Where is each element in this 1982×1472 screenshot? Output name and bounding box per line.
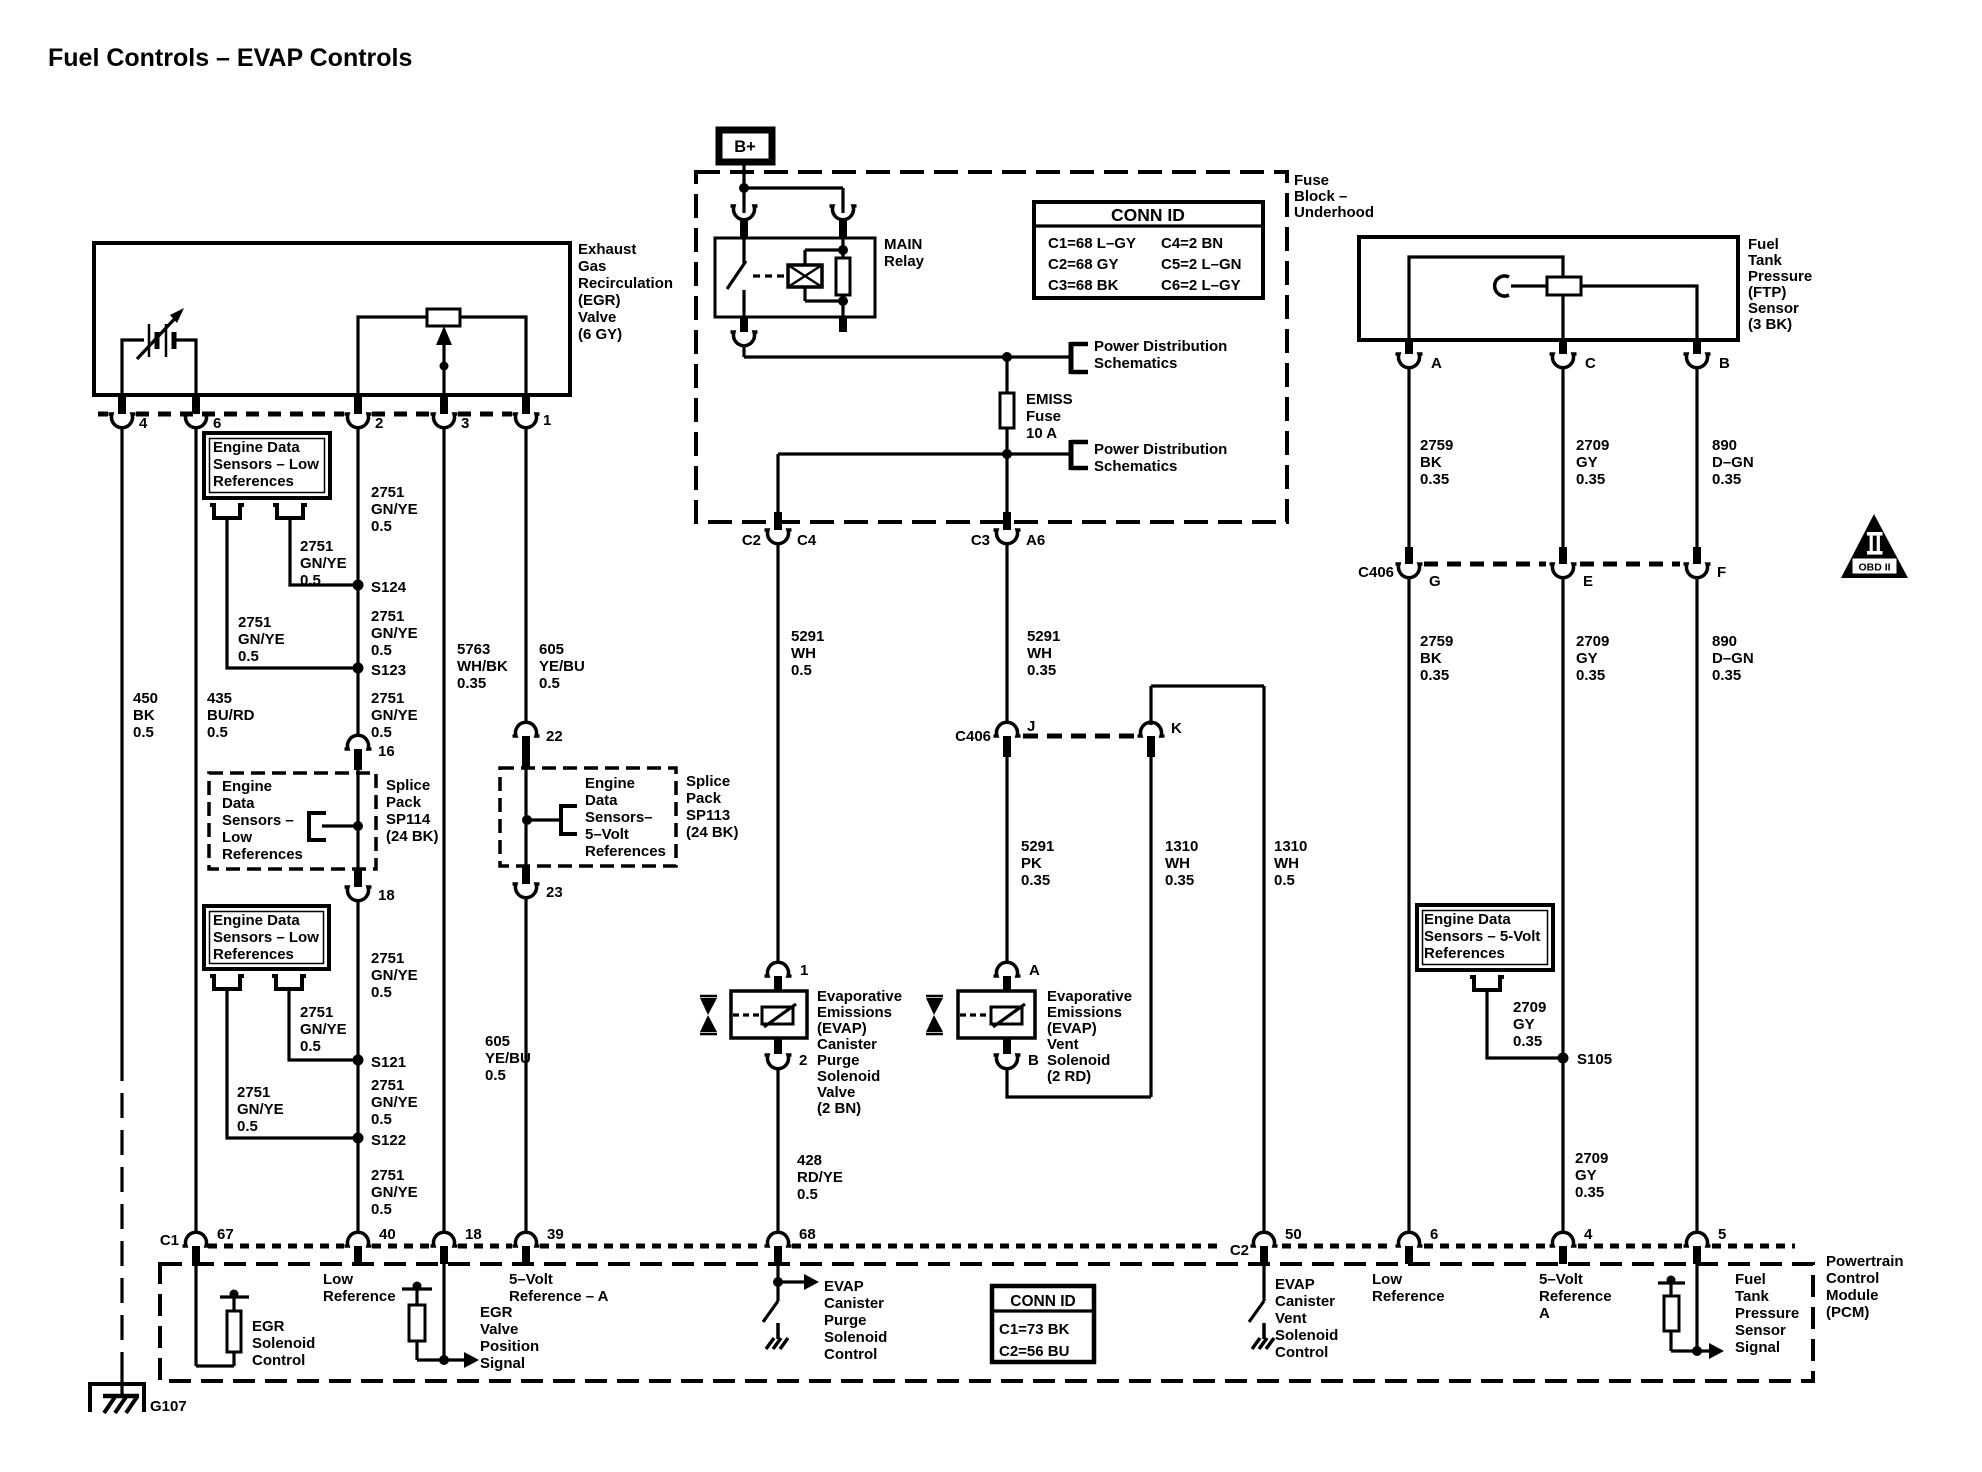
svg-text:0.5: 0.5 bbox=[133, 724, 154, 741]
svg-text:2751: 2751 bbox=[300, 1004, 333, 1021]
svg-text:5–Volt: 5–Volt bbox=[1539, 1271, 1583, 1288]
svg-text:GN/YE: GN/YE bbox=[300, 555, 347, 572]
svg-text:Pressure: Pressure bbox=[1735, 1305, 1799, 1322]
svg-text:Sensor: Sensor bbox=[1748, 300, 1799, 317]
svg-text:0.5: 0.5 bbox=[539, 675, 560, 692]
svg-text:GN/YE: GN/YE bbox=[300, 1021, 347, 1038]
svg-text:WH: WH bbox=[1274, 855, 1299, 872]
svg-text:WH/BK: WH/BK bbox=[457, 658, 508, 675]
svg-text:(6 GY): (6 GY) bbox=[578, 326, 622, 343]
svg-text:(PCM): (PCM) bbox=[1826, 1304, 1869, 1321]
svg-text:Control: Control bbox=[1826, 1270, 1879, 1287]
svg-text:G: G bbox=[1429, 573, 1441, 590]
svg-text:F: F bbox=[1717, 564, 1726, 581]
svg-text:Reference: Reference bbox=[1372, 1288, 1445, 1305]
svg-text:Solenoid: Solenoid bbox=[824, 1329, 887, 1346]
svg-text:Vent: Vent bbox=[1275, 1310, 1307, 1327]
svg-text:GN/YE: GN/YE bbox=[371, 707, 418, 724]
svg-text:0.5: 0.5 bbox=[371, 642, 392, 659]
svg-text:0.5: 0.5 bbox=[371, 984, 392, 1001]
svg-text:0.35: 0.35 bbox=[1513, 1033, 1542, 1050]
svg-text:4: 4 bbox=[1584, 1226, 1593, 1243]
svg-text:0.5: 0.5 bbox=[371, 518, 392, 535]
svg-text:A6: A6 bbox=[1026, 532, 1045, 549]
svg-text:GN/YE: GN/YE bbox=[237, 1101, 284, 1118]
svg-text:2: 2 bbox=[799, 1052, 807, 1069]
svg-text:2709: 2709 bbox=[1575, 1150, 1608, 1167]
svg-text:2751: 2751 bbox=[371, 484, 404, 501]
svg-text:Power Distribution: Power Distribution bbox=[1094, 338, 1227, 355]
svg-text:C1: C1 bbox=[160, 1232, 179, 1249]
svg-text:C3: C3 bbox=[971, 532, 990, 549]
svg-text:C3=68 BK: C3=68 BK bbox=[1048, 277, 1119, 294]
svg-text:Sensors –: Sensors – bbox=[222, 812, 294, 829]
svg-text:2709: 2709 bbox=[1576, 437, 1609, 454]
svg-text:5291: 5291 bbox=[1021, 838, 1054, 855]
svg-text:A: A bbox=[1431, 355, 1442, 372]
svg-text:0.35: 0.35 bbox=[457, 675, 486, 692]
svg-text:Pressure: Pressure bbox=[1748, 268, 1812, 285]
svg-text:2751: 2751 bbox=[238, 614, 271, 631]
svg-text:(3 BK): (3 BK) bbox=[1748, 316, 1792, 333]
svg-text:18: 18 bbox=[465, 1226, 482, 1243]
svg-text:References: References bbox=[213, 473, 294, 490]
svg-text:Powertrain: Powertrain bbox=[1826, 1253, 1904, 1270]
svg-text:BK: BK bbox=[1420, 454, 1442, 471]
svg-text:39: 39 bbox=[547, 1226, 564, 1243]
svg-text:References: References bbox=[1424, 945, 1505, 962]
svg-text:D–GN: D–GN bbox=[1712, 650, 1754, 667]
svg-text:D–GN: D–GN bbox=[1712, 454, 1754, 471]
svg-text:50: 50 bbox=[1285, 1226, 1302, 1243]
svg-text:S105: S105 bbox=[1577, 1051, 1612, 1068]
svg-text:GY: GY bbox=[1576, 454, 1598, 471]
svg-text:Valve: Valve bbox=[817, 1084, 855, 1101]
svg-text:GY: GY bbox=[1513, 1016, 1535, 1033]
svg-text:Fuel: Fuel bbox=[1748, 236, 1779, 253]
svg-text:B: B bbox=[1028, 1052, 1039, 1069]
svg-text:0.5: 0.5 bbox=[797, 1186, 818, 1203]
svg-text:Reference: Reference bbox=[323, 1288, 396, 1305]
svg-text:2751: 2751 bbox=[300, 538, 333, 555]
svg-text:0.35: 0.35 bbox=[1576, 667, 1605, 684]
svg-text:GN/YE: GN/YE bbox=[371, 1184, 418, 1201]
svg-text:2709: 2709 bbox=[1513, 999, 1546, 1016]
svg-text:GN/YE: GN/YE bbox=[371, 501, 418, 518]
svg-text:Control: Control bbox=[252, 1352, 305, 1369]
svg-text:0.5: 0.5 bbox=[485, 1067, 506, 1084]
svg-text:0.5: 0.5 bbox=[371, 1111, 392, 1128]
svg-text:5291: 5291 bbox=[791, 628, 824, 645]
svg-text:4: 4 bbox=[139, 415, 148, 432]
svg-text:450: 450 bbox=[133, 690, 158, 707]
svg-text:References: References bbox=[213, 946, 294, 963]
svg-text:EGR: EGR bbox=[480, 1304, 513, 1321]
svg-text:PK: PK bbox=[1021, 855, 1042, 872]
svg-text:Fuse: Fuse bbox=[1294, 172, 1329, 189]
svg-text:67: 67 bbox=[217, 1226, 234, 1243]
svg-text:Purge: Purge bbox=[824, 1312, 867, 1329]
svg-text:5: 5 bbox=[1718, 1226, 1726, 1243]
svg-text:Sensors–: Sensors– bbox=[585, 809, 653, 826]
svg-text:SP113: SP113 bbox=[686, 807, 730, 824]
svg-text:Block –: Block – bbox=[1294, 188, 1347, 205]
svg-text:E: E bbox=[1583, 573, 1593, 590]
svg-text:890: 890 bbox=[1712, 633, 1737, 650]
svg-text:22: 22 bbox=[546, 728, 563, 745]
svg-text:10 A: 10 A bbox=[1026, 425, 1057, 442]
svg-text:(FTP): (FTP) bbox=[1748, 284, 1786, 301]
svg-text:GY: GY bbox=[1575, 1167, 1597, 1184]
svg-text:Schematics: Schematics bbox=[1094, 458, 1177, 475]
svg-text:(24 BK): (24 BK) bbox=[386, 828, 439, 845]
svg-text:Data: Data bbox=[585, 792, 618, 809]
svg-text:0.5: 0.5 bbox=[237, 1118, 258, 1135]
svg-text:428: 428 bbox=[797, 1152, 822, 1169]
svg-text:CONN ID: CONN ID bbox=[1010, 1293, 1075, 1310]
svg-text:Sensors – Low: Sensors – Low bbox=[213, 456, 319, 473]
svg-text:C406: C406 bbox=[1358, 564, 1394, 581]
svg-text:Sensor: Sensor bbox=[1735, 1322, 1786, 1339]
svg-text:(EGR): (EGR) bbox=[578, 292, 621, 309]
svg-text:BK: BK bbox=[1420, 650, 1442, 667]
svg-text:Solenoid: Solenoid bbox=[817, 1068, 880, 1085]
svg-text:5–Volt: 5–Volt bbox=[509, 1271, 553, 1288]
svg-text:2751: 2751 bbox=[237, 1084, 270, 1101]
svg-text:2709: 2709 bbox=[1576, 633, 1609, 650]
svg-text:WH: WH bbox=[791, 645, 816, 662]
svg-text:Evaporative: Evaporative bbox=[817, 988, 902, 1005]
svg-text:Control: Control bbox=[1275, 1344, 1328, 1361]
svg-text:23: 23 bbox=[546, 884, 563, 901]
svg-text:MAIN: MAIN bbox=[884, 236, 922, 253]
svg-text:RD/YE: RD/YE bbox=[797, 1169, 843, 1186]
svg-text:Underhood: Underhood bbox=[1294, 204, 1374, 221]
svg-text:C2=56 BU: C2=56 BU bbox=[999, 1343, 1069, 1360]
svg-text:(EVAP): (EVAP) bbox=[1047, 1020, 1097, 1037]
svg-text:0.35: 0.35 bbox=[1712, 667, 1741, 684]
svg-text:C1=73 BK: C1=73 BK bbox=[999, 1321, 1070, 1338]
svg-text:Solenoid: Solenoid bbox=[1275, 1327, 1338, 1344]
svg-text:0.5: 0.5 bbox=[371, 724, 392, 741]
svg-text:0.5: 0.5 bbox=[371, 1201, 392, 1218]
svg-text:Recirculation: Recirculation bbox=[578, 275, 673, 292]
svg-text:References: References bbox=[222, 846, 303, 863]
svg-text:S121: S121 bbox=[371, 1054, 406, 1071]
svg-text:2751: 2751 bbox=[371, 950, 404, 967]
svg-text:3: 3 bbox=[461, 415, 469, 432]
svg-text:GY: GY bbox=[1576, 650, 1598, 667]
svg-text:WH: WH bbox=[1027, 645, 1052, 662]
svg-text:C: C bbox=[1585, 355, 1596, 372]
svg-text:B: B bbox=[1719, 355, 1730, 372]
svg-text:0.35: 0.35 bbox=[1420, 471, 1449, 488]
svg-text:0.5: 0.5 bbox=[300, 572, 321, 589]
svg-text:A: A bbox=[1029, 962, 1040, 979]
svg-text:1310: 1310 bbox=[1274, 838, 1307, 855]
svg-text:2751: 2751 bbox=[371, 608, 404, 625]
svg-text:890: 890 bbox=[1712, 437, 1737, 454]
svg-text:References: References bbox=[585, 843, 666, 860]
svg-text:C1=68 L–GY: C1=68 L–GY bbox=[1048, 235, 1136, 252]
svg-text:5–Volt: 5–Volt bbox=[585, 826, 629, 843]
svg-text:YE/BU: YE/BU bbox=[485, 1050, 531, 1067]
svg-text:S122: S122 bbox=[371, 1132, 406, 1149]
svg-text:GN/YE: GN/YE bbox=[371, 1094, 418, 1111]
svg-text:Low: Low bbox=[222, 829, 252, 846]
svg-text:Solenoid: Solenoid bbox=[252, 1335, 315, 1352]
svg-text:6: 6 bbox=[213, 415, 221, 432]
svg-text:40: 40 bbox=[379, 1226, 396, 1243]
svg-text:Solenoid: Solenoid bbox=[1047, 1052, 1110, 1069]
svg-text:B+: B+ bbox=[734, 138, 756, 156]
svg-text:Low: Low bbox=[323, 1271, 353, 1288]
svg-text:Evaporative: Evaporative bbox=[1047, 988, 1132, 1005]
svg-text:Engine Data: Engine Data bbox=[1424, 911, 1511, 928]
svg-text:GN/YE: GN/YE bbox=[238, 631, 285, 648]
svg-text:G107: G107 bbox=[150, 1398, 187, 1415]
svg-text:C4=2 BN: C4=2 BN bbox=[1161, 235, 1223, 252]
svg-text:0.35: 0.35 bbox=[1021, 872, 1050, 889]
svg-text:GN/YE: GN/YE bbox=[371, 967, 418, 984]
svg-text:C5=2 L–GN: C5=2 L–GN bbox=[1161, 256, 1241, 273]
svg-text:Fuse: Fuse bbox=[1026, 408, 1061, 425]
svg-text:Gas: Gas bbox=[578, 258, 606, 275]
svg-text:K: K bbox=[1171, 720, 1182, 737]
svg-text:Engine: Engine bbox=[222, 778, 272, 795]
svg-text:SP114: SP114 bbox=[386, 811, 431, 828]
svg-text:BK: BK bbox=[133, 707, 155, 724]
svg-text:Tank: Tank bbox=[1748, 252, 1783, 269]
svg-text:(2 RD): (2 RD) bbox=[1047, 1068, 1091, 1085]
svg-text:Tank: Tank bbox=[1735, 1288, 1770, 1305]
svg-text:Pack: Pack bbox=[386, 794, 422, 811]
svg-text:0.35: 0.35 bbox=[1712, 471, 1741, 488]
svg-text:Purge: Purge bbox=[817, 1052, 860, 1069]
svg-text:Canister: Canister bbox=[1275, 1293, 1335, 1310]
svg-text:68: 68 bbox=[799, 1226, 816, 1243]
svg-text:Pack: Pack bbox=[686, 790, 722, 807]
svg-text:Canister: Canister bbox=[817, 1036, 877, 1053]
svg-text:435: 435 bbox=[207, 690, 232, 707]
svg-text:Engine Data: Engine Data bbox=[213, 439, 300, 456]
svg-text:605: 605 bbox=[539, 641, 564, 658]
svg-text:0.5: 0.5 bbox=[207, 724, 228, 741]
svg-text:2759: 2759 bbox=[1420, 633, 1453, 650]
svg-text:2: 2 bbox=[375, 415, 383, 432]
svg-text:5763: 5763 bbox=[457, 641, 490, 658]
svg-text:C4: C4 bbox=[797, 532, 817, 549]
svg-text:Schematics: Schematics bbox=[1094, 355, 1177, 372]
svg-text:EGR: EGR bbox=[252, 1318, 285, 1335]
svg-text:1310: 1310 bbox=[1165, 838, 1198, 855]
svg-text:(24 BK): (24 BK) bbox=[686, 824, 739, 841]
svg-text:Fuel: Fuel bbox=[1735, 1271, 1766, 1288]
svg-text:Reference: Reference bbox=[1539, 1288, 1612, 1305]
svg-text:C406: C406 bbox=[955, 728, 991, 745]
svg-text:Engine: Engine bbox=[585, 775, 635, 792]
svg-text:C2=68 GY: C2=68 GY bbox=[1048, 256, 1118, 273]
svg-text:0.35: 0.35 bbox=[1420, 667, 1449, 684]
svg-text:1: 1 bbox=[543, 412, 551, 429]
svg-text:BU/RD: BU/RD bbox=[207, 707, 255, 724]
svg-text:1: 1 bbox=[800, 962, 808, 979]
svg-text:Fuel Controls – EVAP Controls: Fuel Controls – EVAP Controls bbox=[48, 44, 412, 72]
svg-text:Power Distribution: Power Distribution bbox=[1094, 441, 1227, 458]
svg-text:Emissions: Emissions bbox=[1047, 1004, 1122, 1021]
svg-text:C2: C2 bbox=[1230, 1242, 1249, 1259]
svg-text:Sensors – 5-Volt: Sensors – 5-Volt bbox=[1424, 928, 1540, 945]
svg-text:Module: Module bbox=[1826, 1287, 1879, 1304]
svg-text:EVAP: EVAP bbox=[1275, 1276, 1315, 1293]
svg-text:Emissions: Emissions bbox=[817, 1004, 892, 1021]
svg-text:Relay: Relay bbox=[884, 253, 925, 270]
svg-text:EMISS: EMISS bbox=[1026, 391, 1073, 408]
svg-text:GN/YE: GN/YE bbox=[371, 625, 418, 642]
svg-text:0.5: 0.5 bbox=[791, 662, 812, 679]
svg-text:Data: Data bbox=[222, 795, 255, 812]
svg-text:Signal: Signal bbox=[480, 1355, 525, 1372]
svg-text:16: 16 bbox=[378, 743, 395, 760]
svg-text:605: 605 bbox=[485, 1033, 510, 1050]
svg-text:5291: 5291 bbox=[1027, 628, 1060, 645]
svg-text:Vent: Vent bbox=[1047, 1036, 1079, 1053]
svg-text:0.35: 0.35 bbox=[1165, 872, 1194, 889]
svg-text:18: 18 bbox=[378, 887, 395, 904]
svg-text:YE/BU: YE/BU bbox=[539, 658, 585, 675]
svg-text:C6=2 L–GY: C6=2 L–GY bbox=[1161, 277, 1241, 294]
svg-text:0.35: 0.35 bbox=[1027, 662, 1056, 679]
svg-text:0.35: 0.35 bbox=[1576, 471, 1605, 488]
svg-text:0.5: 0.5 bbox=[300, 1038, 321, 1055]
svg-text:Splice: Splice bbox=[686, 773, 730, 790]
svg-text:0.5: 0.5 bbox=[1274, 872, 1295, 889]
svg-text:A: A bbox=[1539, 1305, 1550, 1322]
svg-text:2751: 2751 bbox=[371, 1077, 404, 1094]
svg-text:Splice: Splice bbox=[386, 777, 430, 794]
svg-text:Exhaust: Exhaust bbox=[578, 241, 636, 258]
svg-text:S123: S123 bbox=[371, 662, 406, 679]
svg-text:Signal: Signal bbox=[1735, 1339, 1780, 1356]
svg-text:6: 6 bbox=[1430, 1226, 1438, 1243]
svg-text:2751: 2751 bbox=[371, 690, 404, 707]
svg-text:Low: Low bbox=[1372, 1271, 1402, 1288]
svg-text:(EVAP): (EVAP) bbox=[817, 1020, 867, 1037]
svg-text:0.35: 0.35 bbox=[1575, 1184, 1604, 1201]
svg-text:Canister: Canister bbox=[824, 1295, 884, 1312]
svg-text:WH: WH bbox=[1165, 855, 1190, 872]
svg-text:2759: 2759 bbox=[1420, 437, 1453, 454]
svg-text:Engine Data: Engine Data bbox=[213, 912, 300, 929]
svg-text:Position: Position bbox=[480, 1338, 539, 1355]
svg-text:CONN ID: CONN ID bbox=[1111, 205, 1185, 225]
svg-text:OBD II: OBD II bbox=[1858, 562, 1890, 574]
svg-text:EVAP: EVAP bbox=[824, 1278, 864, 1295]
svg-text:J: J bbox=[1027, 718, 1035, 735]
svg-text:2751: 2751 bbox=[371, 1167, 404, 1184]
svg-text:Valve: Valve bbox=[578, 309, 616, 326]
svg-text:(2 BN): (2 BN) bbox=[817, 1100, 861, 1117]
svg-text:Control: Control bbox=[824, 1346, 877, 1363]
svg-text:0.5: 0.5 bbox=[238, 648, 259, 665]
svg-text:Valve: Valve bbox=[480, 1321, 518, 1338]
svg-text:Sensors – Low: Sensors – Low bbox=[213, 929, 319, 946]
svg-text:Reference – A: Reference – A bbox=[509, 1288, 609, 1305]
svg-text:S124: S124 bbox=[371, 579, 407, 596]
svg-text:C2: C2 bbox=[742, 532, 761, 549]
